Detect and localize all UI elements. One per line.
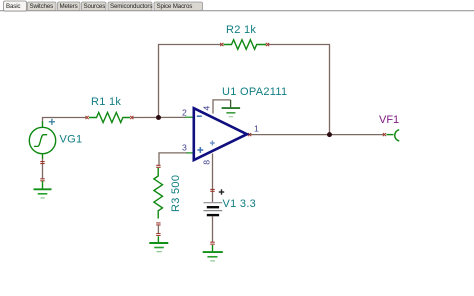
- svg-text:VG1: VG1: [60, 134, 83, 146]
- svg-text:4: 4: [202, 106, 212, 111]
- svg-text:V1 3.3: V1 3.3: [223, 198, 257, 210]
- svg-text:8: 8: [202, 160, 212, 165]
- svg-text:Basic: Basic: [6, 3, 20, 10]
- svg-text:Semiconductors: Semiconductors: [110, 3, 152, 10]
- svg-text:2: 2: [182, 107, 187, 117]
- svg-text:3: 3: [182, 143, 187, 153]
- svg-text:Meters: Meters: [60, 3, 78, 10]
- svg-text:R1 1k: R1 1k: [91, 96, 121, 108]
- svg-text:1: 1: [254, 124, 259, 134]
- svg-text:U1 OPA2111: U1 OPA2111: [222, 86, 287, 98]
- svg-text:Switches: Switches: [30, 3, 54, 10]
- svg-text:R3 500: R3 500: [170, 175, 182, 212]
- svg-text:Spice Macros: Spice Macros: [157, 3, 193, 10]
- svg-text:Sources: Sources: [84, 3, 106, 10]
- svg-text:VF1: VF1: [379, 114, 399, 126]
- svg-text:R2 1k: R2 1k: [226, 24, 256, 36]
